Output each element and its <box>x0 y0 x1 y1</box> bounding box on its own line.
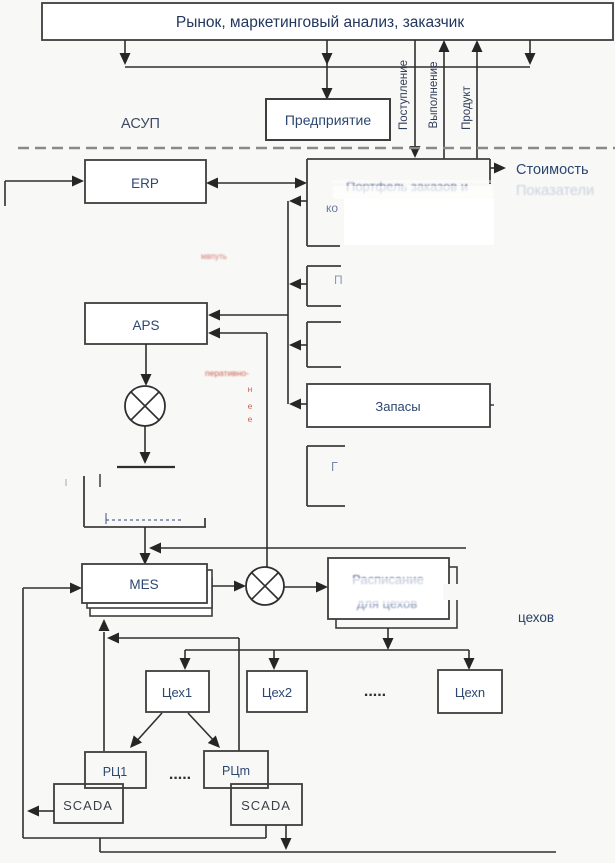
wire: APS down to mixer1 <box>145 344 147 374</box>
wire: feedback line y548 <box>160 547 466 549</box>
box Zapasy <box>307 384 490 427</box>
wire: loop bottom to SCADA right <box>23 837 266 839</box>
svg-text:Рынок, маркетинговый анализ, з: Рынок, маркетинговый анализ, заказчик <box>176 14 464 31</box>
wire: mixer1 down to bar <box>144 426 146 452</box>
svg-text:цехов: цехов <box>518 610 554 625</box>
wire: vertical collector x288 <box>287 201 289 404</box>
top box: market <box>42 3 613 40</box>
svg-text:SCADA: SCADA <box>63 798 113 813</box>
svg-text:MES: MES <box>129 577 158 592</box>
wire: arrow to Stoimost <box>490 167 494 169</box>
svg-text:ERP: ERP <box>131 176 159 191</box>
svg-text:Продукт: Продукт <box>461 85 473 129</box>
svg-text:е: е <box>248 414 253 424</box>
mixer1 circle-X <box>125 386 165 426</box>
box Tsekh1 <box>146 671 209 712</box>
wire: arrows into Tsekh boxes <box>184 650 186 658</box>
erased blue text remnants <box>106 519 183 521</box>
svg-text:.....: ..... <box>169 766 191 783</box>
svg-text:APS: APS <box>132 318 159 333</box>
svg-text:Выполнение: Выполнение <box>428 62 440 129</box>
box RCm <box>204 751 268 788</box>
wire: Produkt line x477 up <box>476 52 478 159</box>
svg-text:ко: ко <box>326 201 338 215</box>
box ERP <box>85 160 206 203</box>
wire: feedback RCm to MES y638 <box>238 638 240 751</box>
svg-text:Цех1: Цех1 <box>162 685 192 700</box>
box Tsekhn <box>438 670 502 713</box>
box SCADA right <box>231 784 302 825</box>
svg-text:н: н <box>248 384 253 394</box>
wire: Zapasy to collector <box>301 403 307 405</box>
box Tsekh2 <box>247 671 307 712</box>
svg-text:Цехn: Цехn <box>455 685 485 700</box>
svg-text:SCADA: SCADA <box>241 798 291 813</box>
wire: Vypolnenie line x444 up <box>443 52 445 159</box>
box MES stack <box>90 578 212 616</box>
wire: SCADA right down arrow <box>285 825 287 838</box>
wire: portfolio to collector <box>301 200 307 202</box>
wire: stub down left x125 <box>124 40 126 55</box>
wire: vertical into MES top <box>144 527 146 553</box>
wire: vertical x267 down to mixer2 <box>266 333 268 567</box>
wire: Postuplenie line x415 down <box>414 40 416 147</box>
svg-text:.....: ..... <box>364 683 386 700</box>
box schedule for shops (stacked) <box>336 567 457 628</box>
svg-text:П: П <box>334 273 343 287</box>
svg-text:Г: Г <box>331 460 338 474</box>
wire: diagonal Tsekh1 to RC1 <box>134 713 162 744</box>
wire: collector to APS <box>220 314 288 316</box>
wire: distribution line y650 <box>185 649 469 651</box>
svg-text:АСУП: АСУП <box>121 116 160 132</box>
box portfolio (partially erased) <box>307 158 490 160</box>
wire: mixer2 to schedule box <box>284 586 316 588</box>
box small3 (erased) <box>307 321 341 323</box>
box small5 (erased) <box>307 445 345 447</box>
svg-text:мвпуть: мвпуть <box>201 252 227 261</box>
wire: stub down right x530 <box>529 40 531 55</box>
wire: RC1 up into MES bottom <box>103 638 105 751</box>
mixer2 circle-X <box>246 567 284 605</box>
box SCADA left <box>54 784 123 823</box>
svg-text:перативно-: перативно- <box>205 368 249 378</box>
erased schedule box <box>83 476 85 527</box>
dashed separator <box>18 147 615 150</box>
svg-text:Показатели: Показатели <box>516 183 594 199</box>
wire: MES to mixer2 <box>212 585 234 587</box>
wire: left loop into MES <box>22 588 24 838</box>
wire: diagonal Tsekh1 to RCm <box>188 713 216 743</box>
svg-text:Поступление: Поступление <box>398 60 410 130</box>
svg-text:Стоимость: Стоимость <box>516 162 589 178</box>
bar (terminator) <box>117 466 175 468</box>
wire: arrow to Predpriyatie x327 <box>326 40 328 98</box>
wire: box2 to collector <box>301 283 307 285</box>
svg-text:РЦm: РЦm <box>222 764 250 778</box>
box APS <box>85 303 207 344</box>
svg-text:РЦ1: РЦ1 <box>103 765 128 779</box>
wire: box3 to collector <box>301 344 307 346</box>
wire: second line into APS from x267 <box>220 332 267 334</box>
wire: SCADA left arrow to loop <box>39 810 54 812</box>
box RC1 <box>85 752 146 788</box>
wire: left bracket into ERP <box>4 181 6 206</box>
wire: schedule down arrow <box>387 628 389 638</box>
box Predpriyatie <box>266 99 390 140</box>
svg-text:Запасы: Запасы <box>375 399 420 414</box>
box small2 (erased) <box>307 265 341 267</box>
svg-text:Цех2: Цех2 <box>262 685 292 700</box>
svg-text:Предприятие: Предприятие <box>285 112 371 128</box>
wire: horizontal distribution line y67 <box>125 66 530 68</box>
wire: double arrow ERP - portfolio <box>218 182 295 184</box>
wire: bottom long line <box>99 838 101 852</box>
svg-text:е: е <box>248 401 253 411</box>
